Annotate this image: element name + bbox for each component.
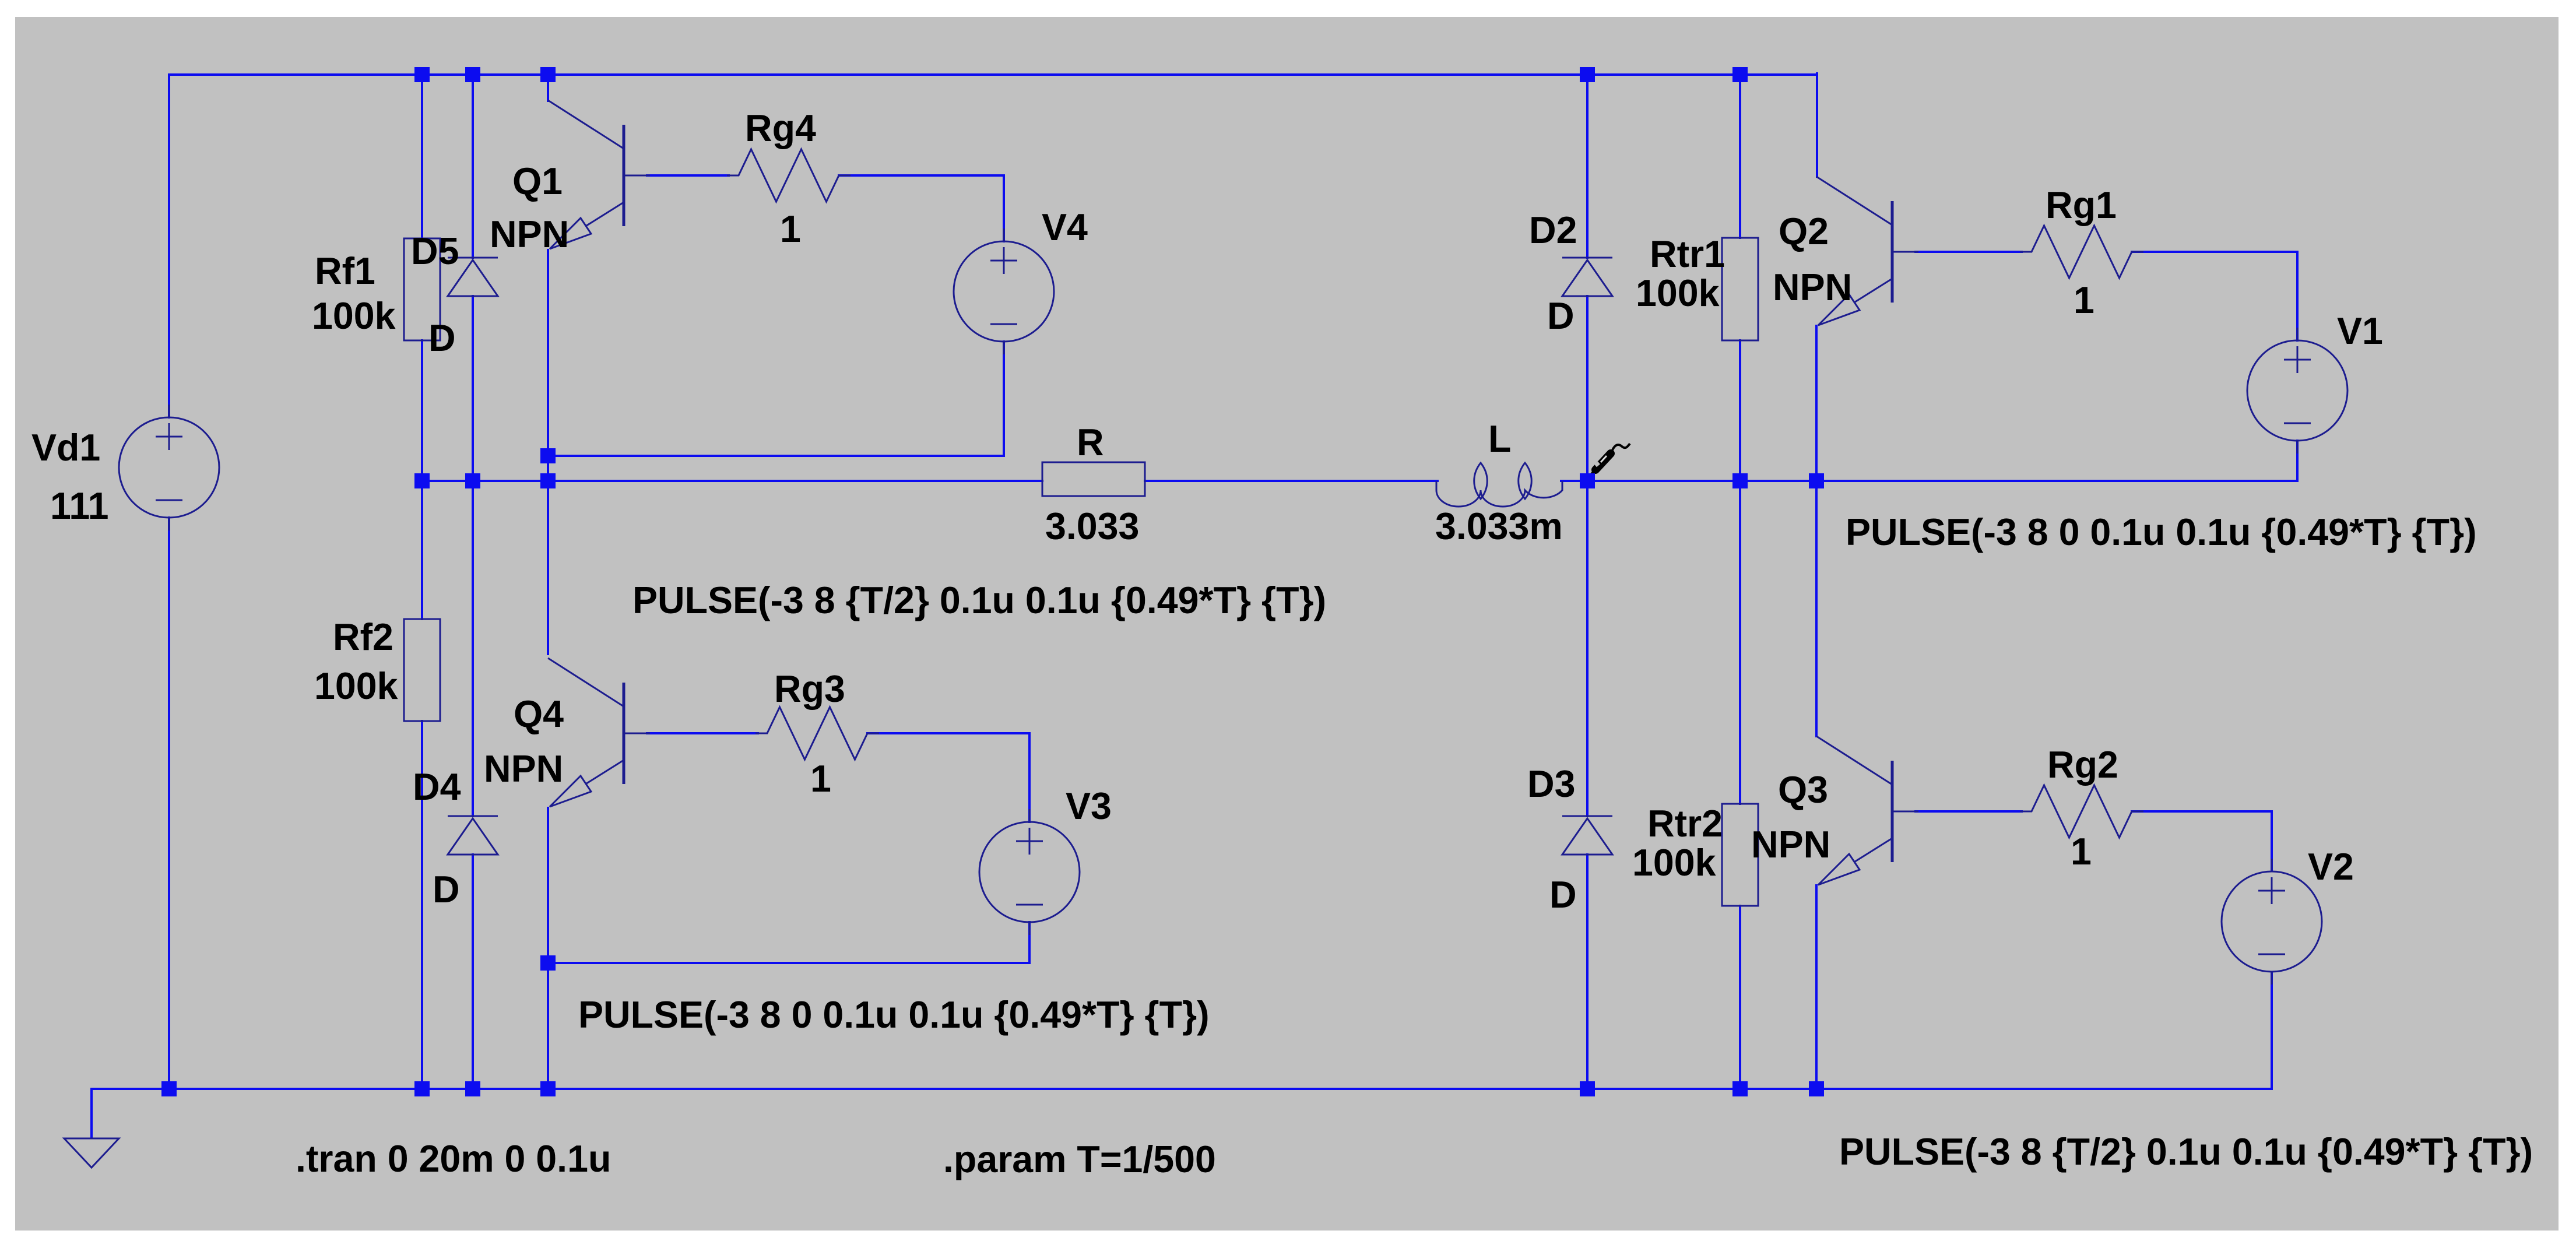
svg-text:3.033m: 3.033m [1435,505,1563,547]
svg-text:.param T=1/500: .param T=1/500 [943,1138,1216,1180]
svg-text:Rf2: Rf2 [333,616,393,658]
voltage source V2 [2222,859,2322,985]
svg-text:D3: D3 [1527,763,1575,805]
svg-text:D5: D5 [411,230,459,272]
junction mid rail D2-D3 [1580,473,1595,488]
svg-text:100k: 100k [312,295,396,337]
wire L to V1 bottom rail [1561,480,2297,482]
svg-text:V1: V1 [2337,310,2383,352]
wire Q4 emitter [547,808,549,1089]
junction bottom rail Q4 [540,1081,556,1096]
svg-text:NPN: NPN [490,213,569,255]
wire D4 bottom [472,855,474,1089]
transistor Q2 NPN [1816,177,1918,325]
svg-text:Rg2: Rg2 [2047,744,2118,786]
wire D5 bottom [472,296,474,481]
svg-text:Rtr1: Rtr1 [1650,233,1725,275]
svg-text:Vd1: Vd1 [31,427,100,469]
junction mid rail Rf [414,473,430,488]
svg-text:D: D [433,869,460,910]
wire Rtr2 top [1739,481,1741,804]
svg-text:V4: V4 [1042,206,1088,248]
svg-text:Q4: Q4 [514,693,564,735]
junction V4 return at Q1 emitter [540,448,556,463]
wire Rf2 bottom [421,721,423,1089]
junction top rail D5 [465,67,480,82]
resistor Rf1 [404,238,440,340]
svg-text:L: L [1488,418,1511,460]
svg-text:100k: 100k [1636,272,1720,314]
wire Q2 collector drop [1816,73,1818,177]
current probe cursor icon [1590,444,1630,476]
wire V2 bottom [2271,972,2273,1089]
svg-text:V3: V3 [1066,785,1112,827]
transistor Q4 NPN [548,658,650,807]
wire Rf1 top [421,75,423,238]
wire V3 top drop [1028,733,1031,822]
resistor Rtr1 [1722,238,1758,340]
wire D3 top [1586,481,1589,816]
junction bottom rail D3 [1580,1081,1595,1096]
svg-text:Rg4: Rg4 [745,107,816,149]
junction top rail Rtr1 [1732,67,1748,82]
wire Rtr2 bottom [1739,906,1741,1089]
wire V1 bottom drop [2296,441,2299,481]
wire D3 bottom [1586,855,1589,1089]
wire V3 return [548,962,1029,964]
wire Rg4 to V4 corner [839,174,1004,177]
svg-text:D4: D4 [413,766,461,808]
wire V3 bottom [1028,922,1031,963]
svg-text:Rg1: Rg1 [2046,184,2117,226]
resistor Rg1 [2020,226,2143,278]
wire Rg2 to V2 corner [2132,810,2272,813]
wire V4 top drop [1003,175,1005,241]
wire Q3 emitter [1815,885,1818,1089]
wire V2 top drop [2271,811,2273,871]
junction top rail Rf1 [414,67,430,82]
inductor L [1436,463,1562,507]
junction mid rail Q2-Q3 [1809,473,1824,488]
svg-text:R: R [1077,421,1104,463]
voltage source V3 [979,809,1080,935]
wire ground stub [90,1089,93,1138]
svg-text:D: D [1549,874,1577,916]
diode D3 [1562,816,1612,855]
resistor Rf2 [404,619,440,721]
svg-text:100k: 100k [314,665,398,707]
diode D5 [448,258,498,296]
svg-text:D: D [1547,295,1575,337]
junction bottom rail D4 [465,1081,480,1096]
junction top rail Q1 [540,67,556,82]
svg-text:D2: D2 [1529,209,1577,251]
wire Rf2 top [421,481,423,619]
junction bottom rail Rtr2 [1732,1081,1748,1096]
svg-text:100k: 100k [1632,842,1716,884]
wire V1 top drop [2296,252,2299,340]
junction bottom rail Rf2 [414,1081,430,1096]
voltage source V4 [954,228,1054,354]
svg-text:V2: V2 [2308,846,2354,888]
svg-text:PULSE(-3 8 0 0.1u 0.1u {0.49*T: PULSE(-3 8 0 0.1u 0.1u {0.49*T} {T}) [578,994,1210,1036]
wire Q1 emitter / Q4 collector [547,250,549,654]
transistor Q3 NPN [1816,736,1918,885]
wire Rf1 bottom [421,340,423,481]
wire D4 top [472,481,474,816]
junction V3 return at Q4 emitter [540,955,556,971]
wire R to L [1145,480,1438,482]
wire top rail [169,73,1817,76]
voltage source Vd1 [119,405,219,530]
svg-text:NPN: NPN [1751,824,1830,866]
diode D2 [1562,258,1612,296]
wire Rg1 to V1 corner [2132,251,2297,253]
junction bottom rail Q3 [1809,1081,1824,1096]
wire bottom rail [92,1088,2272,1090]
wire Vd1 top [168,75,170,417]
resistor Rg4 [727,149,851,202]
svg-text:Q3: Q3 [1778,769,1828,811]
svg-text:D: D [428,317,456,359]
svg-text:Q2: Q2 [1779,210,1829,252]
resistor Rtr2 [1722,804,1758,906]
svg-text:.tran 0 20m 0 0.1u: .tran 0 20m 0 0.1u [296,1138,611,1180]
wire Rg3 to V3 corner [867,732,1029,734]
wire Rtr1 bottom [1739,340,1741,481]
wire D5 top [472,75,474,258]
resistor R [1042,462,1145,496]
svg-text:PULSE(-3 8 {T/2} 0.1u 0.1u {0.: PULSE(-3 8 {T/2} 0.1u 0.1u {0.49*T} {T}) [632,579,1326,621]
wire V4 bottom [1003,342,1005,456]
voltage source V1 [2247,328,2347,454]
wire Q3 base to Rg2 [1916,810,2022,813]
wire Q2 emitter [1815,326,1818,481]
resistor Rg3 [755,707,879,760]
svg-text:1: 1 [780,208,801,250]
junction top rail D2 [1580,67,1595,82]
svg-text:Rg3: Rg3 [774,668,845,710]
svg-text:Rf1: Rf1 [315,250,375,292]
wire Q2 base to Rg1 [1916,251,2022,253]
svg-text:1: 1 [810,758,831,800]
diode D4 [448,816,498,855]
ground [64,1138,119,1168]
svg-text:111: 111 [50,485,109,527]
svg-text:PULSE(-3 8 0 0.1u 0.1u {0.49*T: PULSE(-3 8 0 0.1u 0.1u {0.49*T} {T}) [1846,511,2477,553]
svg-text:Q1: Q1 [512,160,563,202]
junction mid rail Q1-Q4 [540,473,556,488]
svg-text:1: 1 [2074,279,2094,321]
wire Rtr1 top [1739,75,1741,238]
wire Vd1 bottom [168,518,170,1089]
svg-text:NPN: NPN [484,748,563,790]
wire Q4 base to Rg3 [647,732,758,734]
junction mid rail D5-D4 [465,473,480,488]
wire Q1 base to Rg4 [647,174,729,177]
wire Q1 collector [547,75,549,101]
wire D2 bottom [1586,296,1589,481]
svg-text:Rtr2: Rtr2 [1647,803,1723,845]
svg-text:NPN: NPN [1773,266,1852,308]
svg-text:PULSE(-3 8 {T/2} 0.1u 0.1u {0.: PULSE(-3 8 {T/2} 0.1u 0.1u {0.49*T} {T}) [1839,1131,2533,1173]
wire V4 return [548,455,1004,457]
svg-text:3.033: 3.033 [1045,505,1139,547]
wire D2 top [1586,75,1589,258]
wire Q3 collector [1815,481,1818,736]
wire mid rail left of R [422,480,1042,482]
resistor Rg2 [2020,785,2143,838]
transistor Q1 NPN [548,100,650,249]
junction bottom rail Vd1 [161,1081,177,1096]
junction mid rail Rtr [1732,473,1748,488]
svg-text:1: 1 [2071,831,2092,873]
